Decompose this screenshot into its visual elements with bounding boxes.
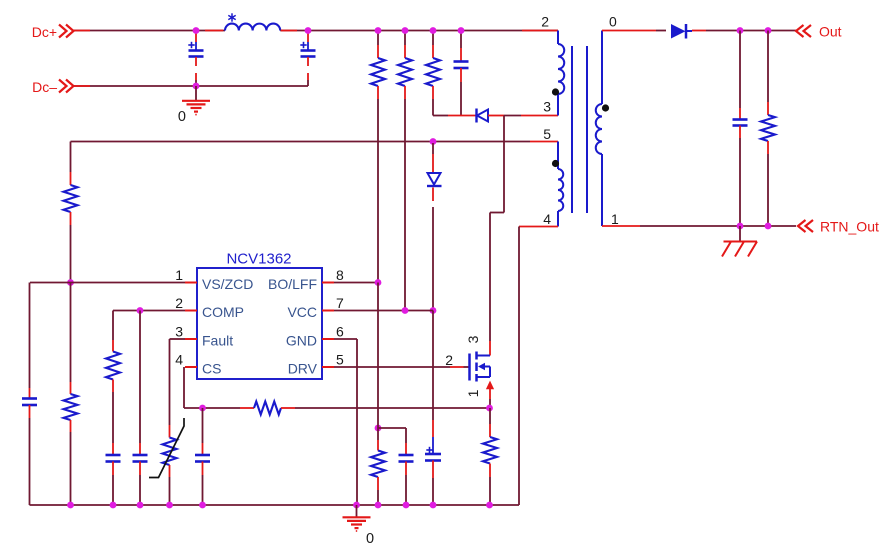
label T1 pin 4 [543,211,551,227]
earth ground output [722,226,757,257]
capacitor C3 [454,31,469,116]
polarity dot aux [552,160,559,167]
resistor R10 [64,283,78,506]
svg-text:6: 6 [336,324,344,340]
port Out [796,24,842,40]
label Q1 gate pin 2 [445,352,453,368]
transformer T1 aux winding [558,142,563,227]
node C2 top [305,27,312,34]
polarity dot primary [552,88,559,95]
node bus C6 [137,502,144,509]
svg-text:VS/ZCD: VS/ZCD [202,276,253,292]
capacitor C8 [399,428,414,505]
wire Dc+ rail [74,30,226,32]
port Dc+ [32,24,74,40]
wire pin5 row [71,141,559,143]
svg-text:VCC: VCC [287,304,317,320]
svg-text:1: 1 [175,267,183,283]
resistor R9 [761,31,775,227]
wire CS drop [184,367,240,408]
capacitor C6 [133,311,148,506]
svg-text:3: 3 [543,99,551,115]
node bus RT1 [166,502,173,509]
resistor R7 [371,283,385,506]
node bus C7 [199,502,206,509]
node zener top [430,138,437,145]
resistor R5 [106,311,120,444]
svg-text:1: 1 [465,389,481,397]
node out cap [737,27,744,34]
node R3 top [430,27,437,34]
op-amp U1 NCV1362 box [197,251,322,380]
node rtn res [765,223,772,230]
node C1 bottom [193,83,200,90]
label Q1 source pin 1 [465,389,481,397]
resistor R3 (top bus) [426,31,440,100]
node C3 top [458,27,465,34]
node bus C9 [430,502,437,509]
label 0 main ground [366,531,374,547]
svg-text:NCV1362: NCV1362 [226,251,291,268]
svg-text:3: 3 [175,324,183,340]
port RTN_Out [798,219,879,235]
node bus GND [353,502,360,509]
wire VS/ZCD row [30,282,185,284]
capacitor C2 [300,32,315,86]
ground 0 main [343,505,371,531]
wire pin4 net [519,227,558,506]
wire Fault row [170,338,186,340]
wire COMP row [113,310,185,312]
capacitor C5 [106,443,121,505]
wire R3 corner [433,99,476,116]
svg-text:2: 2 [541,14,549,30]
svg-text:2: 2 [445,352,453,368]
capacitor C1 [188,32,203,86]
wire Dc- rail [74,85,309,87]
capacitor C4 (left column) [22,283,37,506]
svg-text:DRV: DRV [288,361,318,377]
svg-text:Dc–: Dc– [32,79,57,95]
wire VCC row [334,310,433,312]
pin 5 DRV [288,352,344,377]
svg-text:RTN_Out: RTN_Out [820,219,879,235]
node source junction [486,405,493,412]
wire drain jog [490,116,504,356]
svg-text:8: 8 [336,267,344,283]
svg-text:Out: Out [819,24,842,40]
node R1 top [375,27,382,34]
node VCC junction [402,307,409,314]
svg-text:GND: GND [286,333,317,349]
pin 7 VCC [287,295,344,320]
node bus C8 [403,502,410,509]
wire pin3 row [504,115,558,117]
node BO/LFF junction [375,279,382,286]
polarity dot secondary [602,104,609,111]
resistor R8 [483,408,497,505]
resistor R4 [64,142,78,283]
wire R1 column [377,99,379,283]
node bus R7 [375,502,382,509]
wire R2 column [404,99,406,311]
resistor R6 [240,402,295,415]
node CS junction [199,405,206,412]
node C1 top [193,27,200,34]
node rtn cap [737,223,744,230]
node COMP junction [137,307,144,314]
wire RTN row [602,225,796,227]
wire divider branch [378,427,406,429]
wire ground bus [30,504,520,506]
label Q1 drain pin 3 [465,335,481,343]
label 0 input ground [178,109,186,125]
svg-text:0: 0 [178,109,186,125]
pin 2 COMP [175,295,244,320]
transistor Q1 MOSFET [470,352,491,382]
capacitor C10 [733,31,748,227]
svg-text:Dc+: Dc+ [32,24,57,40]
transformer T1 primary winding [558,31,564,116]
svg-text:0: 0 [609,14,617,30]
svg-text:COMP: COMP [202,304,244,320]
node divider tap [375,425,382,432]
transformer T1 core [572,46,587,213]
node VS/ZCD junction [67,279,74,286]
label T1 pin 2 [541,14,549,30]
capacitor C9 [425,420,441,505]
wire secondary top [602,30,666,32]
label T1 pin 0 [609,14,617,30]
port Dc- [32,79,73,95]
wire sense row [295,407,490,409]
wire source to node [489,399,491,408]
capacitor C7 [195,408,210,505]
svg-text:1: 1 [611,211,619,227]
node out res [765,27,772,34]
svg-text:3: 3 [465,335,481,343]
label T1 pin 1 [611,211,619,227]
svg-text:CS: CS [202,361,221,377]
pin 3 Fault [175,324,233,349]
ground 0 input [182,86,210,115]
svg-text:7: 7 [336,295,344,311]
resistor R1 (top bus) [371,31,385,100]
label T1 pin 5 [543,126,551,142]
resistor R2 (top bus) [398,31,412,100]
label T1 pin 3 [543,99,551,115]
svg-text:5: 5 [336,352,344,368]
pin 4 CS [175,352,221,377]
node bus R8 [486,502,493,509]
node VCC/zener junction [430,307,437,314]
wire GND net [334,339,357,505]
wire DRV row [334,366,470,368]
diode D3 [671,24,706,39]
wire BO/LFF row [334,282,378,284]
wire zener column lower [432,311,434,421]
transformer T1 secondary winding [596,31,602,227]
svg-text:2: 2 [175,295,183,311]
wire out rail [706,30,796,32]
svg-text:4: 4 [543,211,551,227]
svg-text:5: 5 [543,126,551,142]
pin 1 VS/ZCD [175,267,253,292]
wire top rail [280,30,558,32]
svg-text:BO/LFF: BO/LFF [268,276,317,292]
diode D2 zener [427,143,442,311]
thermistor RT1 [149,339,184,505]
svg-text:4: 4 [175,352,183,368]
node R2 top [402,27,409,34]
node bus R4 [67,502,74,509]
diode D1 [477,109,505,123]
inductor L1 [225,13,280,30]
node bus C5 [110,502,117,509]
svg-text:0: 0 [366,531,374,547]
pin 6 GND [286,324,344,349]
arrow Q1 source [486,381,494,399]
svg-text:Fault: Fault [202,333,233,349]
pin 8 BO/LFF [268,267,344,292]
